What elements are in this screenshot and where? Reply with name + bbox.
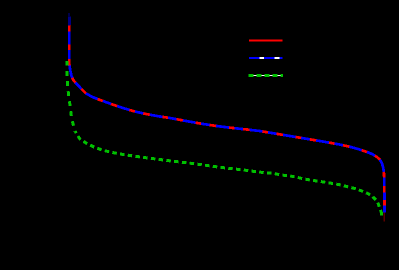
legend sample 3 green dashes xyxy=(249,74,283,77)
legend sample 2 blue dashes xyxy=(249,57,283,59)
legend sample 1 red solid xyxy=(249,39,282,41)
curve 3 green dashed, steep left section xyxy=(67,61,75,131)
curve 3 green dashed, main section xyxy=(75,131,381,213)
legend sample 3 white underlay xyxy=(249,75,283,76)
curve 1 bottom red segment on right drop xyxy=(383,200,386,205)
legend sample 2 white underlay xyxy=(249,57,283,59)
curve 3 green final dash xyxy=(380,212,383,216)
curve 2 blue dashed overlay xyxy=(69,14,384,213)
curve 1 bottom faint tail xyxy=(383,213,385,222)
curve 1 top faint tip xyxy=(68,13,70,26)
curve 2 bottom blue segment on right drop xyxy=(383,205,386,212)
curve 1 red solid (under blue dashes) xyxy=(69,21,384,213)
